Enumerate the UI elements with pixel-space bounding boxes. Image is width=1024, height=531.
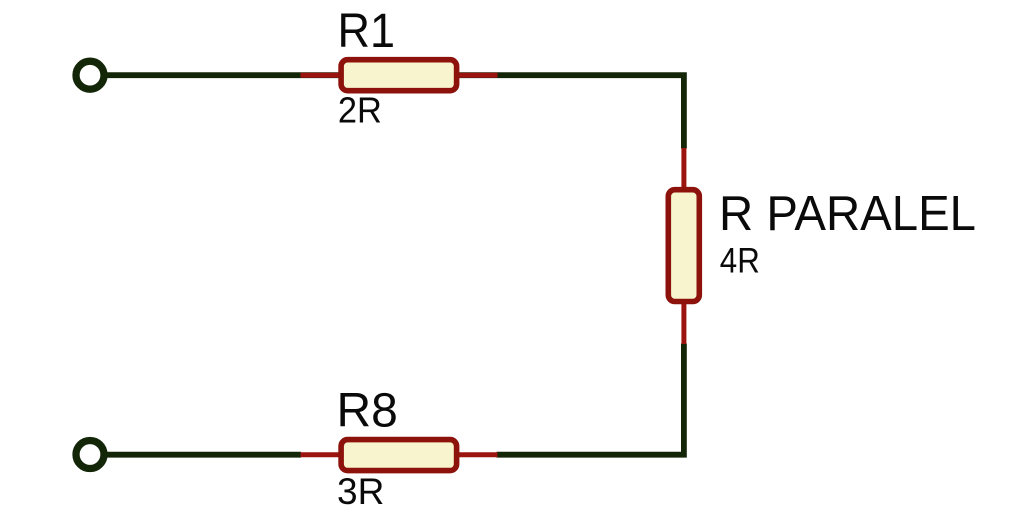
resistor R PARALEL body (vertical) xyxy=(668,190,699,302)
svg-text:3R: 3R xyxy=(337,471,384,512)
resistor R PARALEL pin 1 (top) xyxy=(681,148,686,189)
svg-text:R8: R8 xyxy=(337,385,398,438)
resistor R1 body xyxy=(341,60,457,91)
wire bottom horizontal from R8 left pin to terminal xyxy=(106,452,301,458)
wire top horizontal from terminal to corner, then down to R PARALEL pin xyxy=(106,75,684,148)
resistor R1 pin 2 (right) xyxy=(458,73,498,78)
svg-text:R PARALEL: R PARALEL xyxy=(719,186,976,241)
node: open terminal bottom-left xyxy=(76,441,104,469)
resistor R8 pin 2 (right) xyxy=(458,452,498,457)
node: open terminal top-left xyxy=(76,61,104,89)
svg-text:2R: 2R xyxy=(338,90,382,131)
resistor R1 pin 1 (left) xyxy=(301,73,341,78)
wire from R PARALEL bottom pin down and left to R8 right pin xyxy=(497,344,684,455)
resistor R PARALEL pin 2 (bottom) xyxy=(681,302,686,344)
resistor R8 pin 1 (left) xyxy=(301,452,341,457)
svg-text:4R: 4R xyxy=(720,242,760,281)
svg-text:R1: R1 xyxy=(338,5,396,58)
resistor R8 body xyxy=(341,440,457,471)
